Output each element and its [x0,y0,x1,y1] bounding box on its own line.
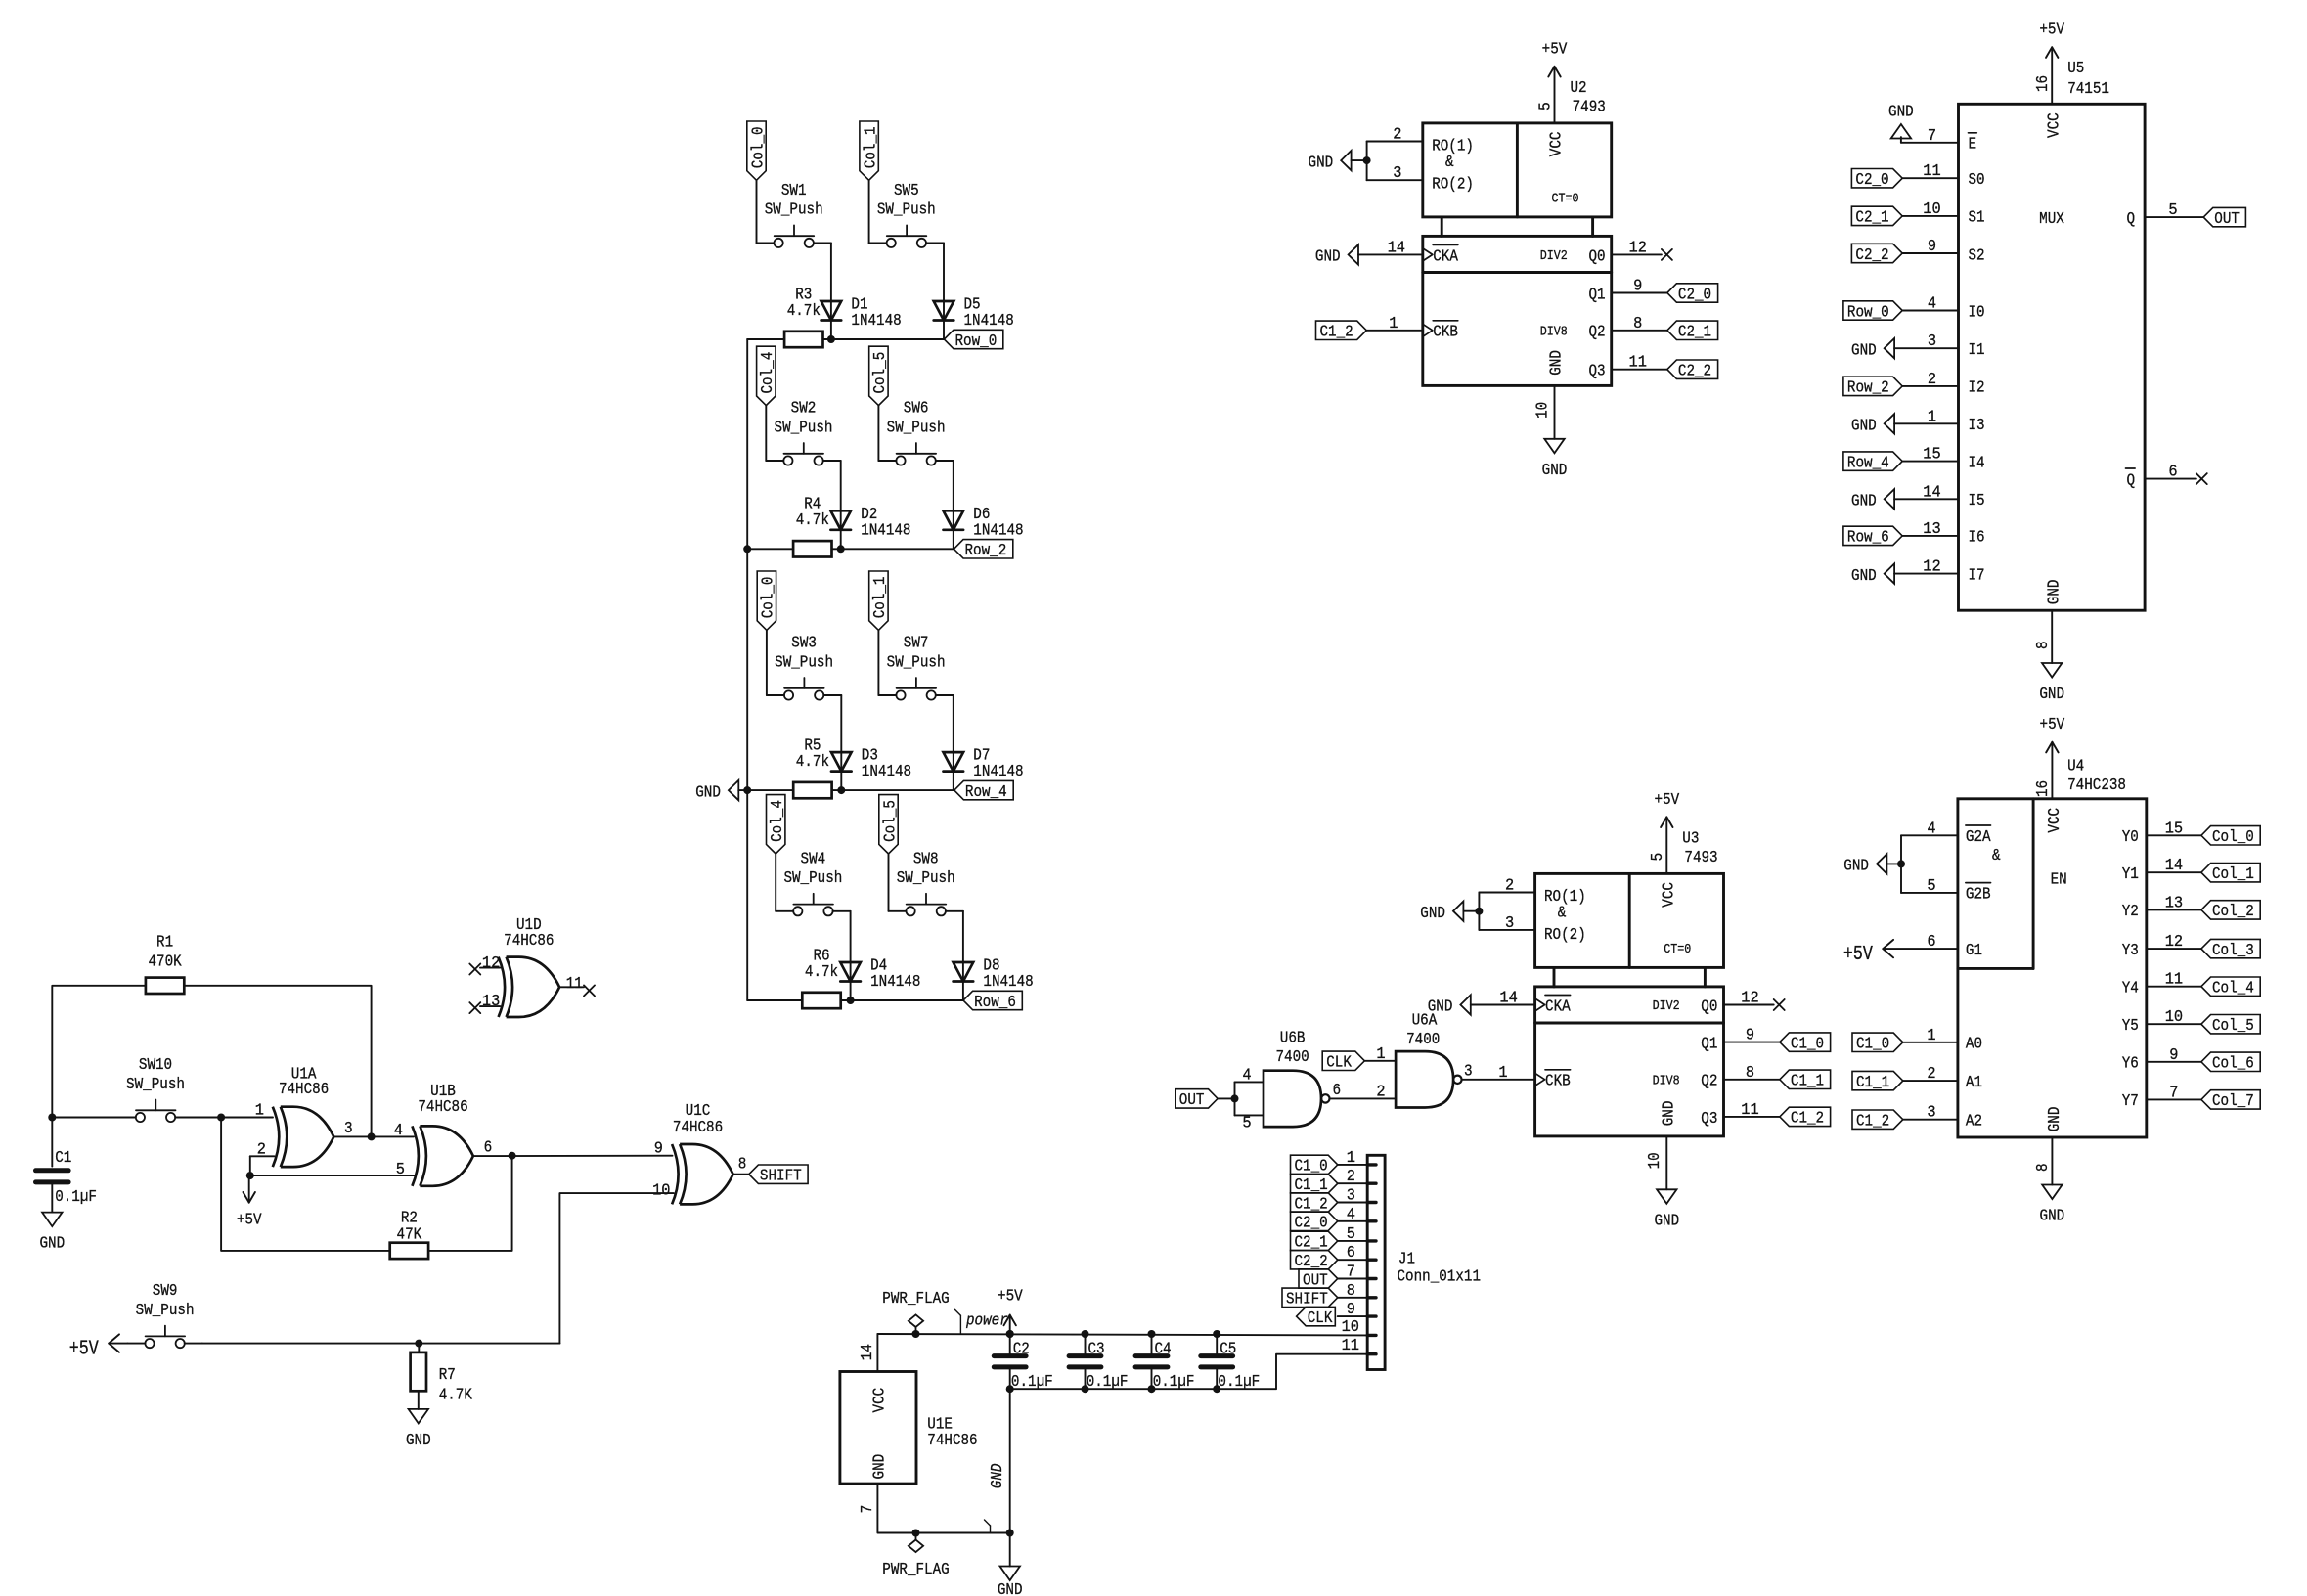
ground GND at U5 pin 12 [1851,558,1959,586]
wire R1 loop [52,986,146,1118]
svg-text:GND: GND [695,783,721,802]
svg-text:Col_7: Col_7 [2212,1092,2254,1111]
svg-text:10: 10 [652,1182,670,1201]
J1 pin 11 stub [1342,1337,1376,1355]
svg-text:6: 6 [1347,1244,1355,1263]
svg-text:8: 8 [1746,1064,1754,1083]
global label Col_4 (Row_6 row left) [767,795,788,854]
global label C2_1 at J1 pin 5 [1291,1225,1368,1253]
svg-text:Row_0: Row_0 [955,332,998,351]
global label C1_2 to U2 CKB pin 1 [1316,315,1423,342]
svg-text:1N4148: 1N4148 [861,521,910,540]
global label C2_0 to U5 pin 11 [1851,162,1958,190]
svg-text:13: 13 [1923,520,1940,539]
global label C1_2 to U4 A3 pin 3 [1852,1104,1958,1131]
svg-text:13: 13 [482,993,500,1011]
switch SW8 SW_Push [889,850,963,915]
svg-text:2: 2 [1927,1065,1935,1084]
global label C1_1 at U3 Q2 [1780,1070,1831,1091]
svg-text:Col_5: Col_5 [2212,1017,2254,1036]
svg-text:Y4: Y4 [2122,980,2139,998]
resistor R7 4.7K (vertical) [411,1344,473,1409]
svg-text:4.7K: 4.7K [439,1387,473,1405]
svg-text:Q3: Q3 [1701,1110,1717,1129]
svg-text:SW_Push: SW_Push [765,201,823,220]
wire RO join [1366,142,1368,181]
junction top [1082,1330,1089,1338]
svg-text:12: 12 [1923,558,1940,577]
svg-text:+5V: +5V [2039,22,2064,40]
svg-text:4.7k: 4.7k [787,302,821,321]
wire R2 right up to pin6 net [428,1156,511,1251]
svg-text:1: 1 [1347,1149,1355,1168]
svg-text:Col_4: Col_4 [759,352,777,394]
svg-text:I3: I3 [1969,417,1985,435]
svg-text:4: 4 [1928,295,1936,314]
wire [841,999,963,1001]
XOR gate U1A 74HC86 [255,1066,353,1168]
svg-text:+5V: +5V [1654,791,1679,810]
svg-text:U5: U5 [2067,60,2084,78]
junction OUT [1231,1094,1239,1102]
svg-text:CKA: CKA [1433,247,1458,266]
svg-text:Row_6: Row_6 [974,994,1016,1012]
svg-text:Q1: Q1 [1589,286,1606,304]
svg-text:Q2: Q2 [1701,1073,1717,1091]
wire vertical bus left of switch matrix [746,339,748,1000]
J1 pin 7 stub [1367,1277,1376,1280]
svg-text:0.1µF: 0.1µF [1153,1373,1195,1392]
global label Col_3 at U4 Y [2201,939,2260,960]
ground GND at U3 RO [1420,902,1479,923]
wire U1E VCC pin 14 [859,1334,877,1372]
svg-text:9: 9 [1347,1301,1355,1319]
capacitor C4 0.1uF [1135,1334,1194,1392]
global label Row_0 to U5 pin 4 [1843,295,1959,323]
svg-text:C2_2: C2_2 [1678,363,1711,381]
svg-text:VCC: VCC [1661,882,1679,908]
svg-text:74HC238: 74HC238 [2067,776,2126,795]
U1D pin11 no-connect [559,985,595,996]
svg-text:SW10: SW10 [139,1056,172,1075]
power +5V at U3 pin 5 [1649,791,1680,874]
svg-text:15: 15 [1923,446,1940,465]
wire SW10 right to U1A pin1 [193,1117,273,1119]
svg-text:47K: 47K [397,1226,422,1245]
svg-text:E: E [1969,136,1977,155]
ground GND below C1 [39,1213,65,1254]
wire U3 Q3 pin 11 [1724,1101,1780,1120]
svg-text:12: 12 [1741,990,1758,1008]
svg-text:Col_6: Col_6 [2212,1055,2254,1074]
wire U6B output pin 6 to U6A pin 2 [1330,1082,1396,1101]
power +5V at U2 pin 5 [1536,40,1568,123]
svg-text:7: 7 [1347,1263,1355,1282]
wire SW9 to R7 junction and U1C pin10 riser [202,1343,560,1345]
resistor R2 47K [390,1210,428,1260]
svg-text:SW8: SW8 [913,850,939,868]
ground GND at U3 pin 14 CKA [1428,990,1535,1017]
diode D5 1N4148 [934,296,1014,332]
svg-text:C2_0: C2_0 [1295,1215,1328,1233]
switch SW1 SW_Push [757,182,831,247]
wire [747,338,784,340]
svg-text:3: 3 [1464,1062,1473,1081]
svg-text:2: 2 [1928,371,1936,389]
switch SW9 SW_Push [127,1282,201,1348]
svg-text:C1_0: C1_0 [1791,1035,1824,1053]
svg-text:A2: A2 [1966,1113,1982,1131]
wire U1B out pin6 [473,1155,673,1157]
switch SW6 SW_Push [878,400,953,465]
svg-text:VCC: VCC [2046,112,2064,138]
svg-text:Conn_01x11: Conn_01x11 [1398,1267,1482,1286]
svg-text:DIV8: DIV8 [1653,1074,1680,1088]
svg-text:U6B: U6B [1280,1030,1306,1048]
wire U3 pin 3 [1479,914,1534,933]
wire [850,911,852,1000]
svg-text:RO(2): RO(2) [1544,926,1586,945]
global label Col_5 at U4 Y [2201,1015,2260,1037]
svg-text:1: 1 [255,1102,264,1121]
svg-text:9: 9 [654,1140,663,1159]
junction bottom [1082,1385,1089,1393]
local label power [954,1309,1007,1334]
wire [775,854,776,911]
svg-text:DIV2: DIV2 [1540,249,1568,264]
ground GND at U3 pin 10 [1646,1136,1679,1230]
svg-text:3: 3 [1393,164,1401,183]
wire +5V rail [877,1334,1367,1335]
wire U6A output pin 3 to U3 CKB pin 1 [1462,1062,1535,1082]
svg-text:GND: GND [1851,341,1877,360]
svg-text:Row_6: Row_6 [1847,529,1889,548]
svg-text:GND: GND [1548,350,1567,376]
svg-text:SW9: SW9 [153,1282,178,1301]
svg-text:Row_4: Row_4 [1847,454,1889,472]
wire U4 G2B pin 5 [1901,877,1958,896]
junction top [1213,1330,1220,1338]
wire U1E GND pin 7 [859,1484,1010,1532]
wire [832,789,954,791]
wire U5 Qbar pin 6 no-connect [2145,464,2207,485]
diode D1 1N4148 [821,296,902,332]
diode D2 1N4148 [830,506,910,541]
wire [962,911,964,1000]
junction [1006,1529,1014,1537]
ground GND at Row_4 [695,780,747,802]
svg-text:14: 14 [1499,990,1517,1008]
global label Col_4 (Row_2 row left) [757,346,778,405]
junction [1006,1330,1014,1338]
svg-text:Y5: Y5 [2122,1017,2139,1036]
svg-text:GND: GND [1420,905,1445,923]
junction C1/SW10 [48,1114,56,1122]
svg-text:8: 8 [738,1156,747,1175]
svg-text:SW_Push: SW_Push [887,419,946,437]
svg-text:7: 7 [1928,127,1936,146]
ground GND below R7 [406,1409,431,1450]
svg-text:A1: A1 [1966,1074,1982,1092]
wire U2 Q1 pin 9 [1612,278,1667,296]
wire U4 G2A pin 4 [1901,820,1958,838]
svg-text:Q0: Q0 [1589,247,1606,266]
svg-text:1N4148: 1N4148 [973,763,1023,781]
global label SHIFT at J1 pin 8 [1282,1282,1367,1309]
svg-text:8: 8 [2034,641,2053,649]
wire R2 left to feedback node [221,1118,390,1251]
XOR gate U1B 74HC86 [394,1083,492,1186]
wire U3 Q0 pin 12 no-connect [1724,990,1785,1011]
ground GND at U5 pin 1 [1851,408,1959,435]
svg-text:Y2: Y2 [2122,903,2139,921]
junction bottom [1213,1385,1220,1393]
svg-text:1: 1 [1927,1027,1935,1045]
resistor R3 4.7k [784,286,822,347]
global label C2_2 at J1 pin 6 [1291,1244,1368,1271]
wire U1A pin3 out [333,1135,371,1137]
junction bus/Row_2 [743,545,751,553]
svg-text:4.7k: 4.7k [796,511,829,530]
svg-text:C2_0: C2_0 [1678,286,1711,304]
svg-text:G2B: G2B [1966,886,1991,905]
global label C1_0 to U4 A1 pin 1 [1852,1027,1958,1054]
svg-text:11: 11 [2165,971,2183,990]
wire [888,854,890,911]
IC U3 7493 counter [1535,830,1724,1136]
svg-text:4: 4 [1927,820,1935,838]
svg-text:C3: C3 [1088,1341,1105,1359]
wire [832,548,954,550]
wire U4 Y pin 15 [2147,820,2201,838]
wire OUT to U6B inputs [1218,1066,1264,1132]
svg-text:OUT: OUT [2214,210,2240,229]
svg-text:VCC: VCC [1548,132,1567,157]
wire U4 Y pin 12 [2147,933,2201,952]
wire [747,999,802,1001]
XOR gate U1C 74HC86 [652,1102,746,1205]
svg-text:2: 2 [1505,877,1514,896]
ground GND at U4 pin 8 [2034,1137,2064,1226]
svg-text:RO(2): RO(2) [1432,175,1474,194]
svg-text:8: 8 [1347,1282,1355,1301]
switch SW5 SW_Push [869,182,944,247]
junction pin2 net [246,1172,254,1179]
svg-text:6: 6 [1927,933,1935,952]
svg-text:GND: GND [2040,1208,2065,1226]
svg-text:U4: U4 [2067,758,2084,776]
svg-text:C2_0: C2_0 [1855,171,1888,190]
svg-text:Q: Q [2127,210,2136,229]
switch SW4 SW_Push [776,850,850,915]
svg-text:C1_2: C1_2 [1856,1113,1889,1131]
svg-text:Q1: Q1 [1701,1036,1717,1054]
junction [912,1529,920,1537]
svg-text:74151: 74151 [2067,80,2109,99]
svg-text:SW2: SW2 [791,400,817,419]
svg-text:5: 5 [396,1161,405,1179]
svg-text:C5: C5 [1220,1341,1236,1359]
junction at D2 cathode [837,545,845,553]
svg-text:14: 14 [859,1344,877,1360]
svg-text:GND: GND [406,1432,431,1450]
power +5V to U4 G1 pin 6 [1843,933,1958,966]
junction [912,1330,920,1338]
svg-text:J1: J1 [1398,1251,1415,1269]
svg-text:10: 10 [1646,1152,1664,1169]
svg-text:7493: 7493 [1684,849,1717,867]
svg-text:11: 11 [1629,354,1647,373]
global label C2_1 to U5 pin 10 [1851,200,1958,228]
svg-text:0.1µF: 0.1µF [55,1188,97,1207]
wire U2 Q3 pin 11 [1612,354,1667,373]
svg-text:3: 3 [1928,332,1936,351]
svg-text:13: 13 [2165,894,2183,912]
svg-text:CKA: CKA [1545,997,1571,1016]
svg-text:Y6: Y6 [2122,1055,2139,1074]
svg-text:9: 9 [1746,1027,1754,1045]
wire [747,548,793,550]
svg-text:A0: A0 [1966,1036,1982,1054]
svg-text:1N4148: 1N4148 [964,312,1014,331]
svg-text:Q2: Q2 [1589,324,1606,342]
svg-text:&: & [1558,905,1567,923]
svg-text:C2_2: C2_2 [1855,246,1888,265]
svg-text:&: & [1992,847,2001,865]
wire U4 Y pin 9 [2147,1046,2201,1065]
svg-text:Row_2: Row_2 [1847,379,1889,398]
wire [840,695,842,790]
svg-text:PWR_FLAG: PWR_FLAG [882,1561,949,1579]
power flag PWR_FLAG on GND [882,1533,949,1580]
svg-text:2: 2 [1393,126,1401,145]
svg-text:+5V: +5V [237,1212,262,1230]
diode D4 1N4148 [840,957,920,993]
svg-text:power: power [965,1312,1008,1331]
svg-text:1: 1 [1389,315,1398,333]
svg-text:GND: GND [1654,1212,1679,1230]
switch SW2 SW_Push [766,400,840,465]
wire [877,406,879,461]
NAND gate U6B 7400 [1264,1030,1330,1128]
svg-text:I6: I6 [1969,529,1985,548]
ground GND at U5 pin 14 [1851,483,1959,510]
global label OUT to U6B [1176,1089,1218,1111]
svg-text:5: 5 [1347,1225,1355,1244]
svg-text:+5V: +5V [1843,944,1873,966]
svg-text:4.7k: 4.7k [805,963,838,982]
svg-text:R1: R1 [156,934,173,953]
svg-text:1N4148: 1N4148 [862,763,911,781]
power flag PWR_FLAG on +5V [882,1290,949,1334]
svg-text:C4: C4 [1155,1341,1172,1359]
svg-text:C1_2: C1_2 [1320,324,1353,342]
svg-text:SW_Push: SW_Push [897,869,955,888]
wire pin2 net to U1B pin5 [250,1175,414,1176]
svg-text:GND: GND [1315,248,1341,267]
svg-text:GND: GND [1851,493,1877,511]
svg-text:5: 5 [1649,853,1667,862]
global label C2_2 at U2 Q3 [1667,360,1718,381]
wire GND rail [1010,1354,1368,1390]
resistor R4 4.7k [793,496,831,557]
svg-text:0.1µF: 0.1µF [1087,1373,1129,1392]
svg-text:14: 14 [2165,857,2183,875]
global label Row_6 [963,991,1022,1012]
ground GND at U5 pin 8 [2034,610,2064,704]
svg-text:74HC86: 74HC86 [504,932,554,951]
J1 pin 10 stub [1342,1318,1376,1337]
svg-text:Q: Q [2127,471,2136,490]
global label C1_1 to U4 A2 pin 2 [1852,1065,1958,1092]
svg-text:Row_2: Row_2 [965,542,1007,560]
global label C1_1 at J1 pin 2 [1291,1168,1368,1195]
global label Col_2 at U4 Y [2201,901,2260,922]
global label C2_0 at U2 Q1 [1667,284,1718,305]
diode D6 1N4148 [944,506,1024,541]
svg-text:GND: GND [2039,686,2064,704]
svg-text:11: 11 [1923,162,1940,181]
power +5V left at SW9 [69,1334,128,1360]
wire U1C pin10 from SW9 net [559,1193,673,1344]
svg-text:10: 10 [1533,402,1552,419]
svg-text:SW7: SW7 [904,635,929,653]
svg-text:SW_Push: SW_Push [783,869,842,888]
wire U5 Q pin 5 to OUT [2145,201,2203,220]
svg-text:S1: S1 [1969,209,1985,228]
svg-text:I7: I7 [1969,566,1985,585]
global label Col_6 at U4 Y [2201,1052,2260,1074]
global label C2_0 at J1 pin 4 [1291,1206,1368,1233]
svg-text:Col_1: Col_1 [871,577,890,619]
svg-text:2: 2 [1376,1083,1385,1101]
wire [830,243,832,339]
svg-text:DIV8: DIV8 [1540,325,1568,339]
svg-text:Col_0: Col_0 [2212,828,2254,847]
svg-text:SW_Push: SW_Push [887,653,946,672]
svg-text:Col_1: Col_1 [2212,865,2254,884]
power +5V arrow on rail [998,1288,1023,1335]
global label Row_2 to U5 pin 2 [1843,371,1959,398]
svg-text:7: 7 [859,1505,877,1514]
junction at D1 cathode [827,335,835,343]
wire U1C out pin8 to SHIFT [733,1174,749,1175]
svg-text:U2: U2 [1571,79,1587,98]
svg-text:U6A: U6A [1412,1012,1438,1031]
ground GND at U4 G2A/G2B [1843,854,1901,875]
svg-text:1: 1 [1498,1064,1507,1083]
global label Row_4 to U5 pin 15 [1843,446,1959,473]
svg-text:Col_0: Col_0 [760,577,778,619]
svg-text:CT=0: CT=0 [1552,192,1579,206]
svg-text:S0: S0 [1969,171,1985,190]
ground GND at U2 RO [1309,151,1367,172]
svg-text:Col_5: Col_5 [881,800,900,842]
wire U3 pin 2 [1479,877,1534,896]
svg-text:Y7: Y7 [2122,1092,2139,1111]
wire U2 pin 3 [1367,164,1423,183]
svg-text:G1: G1 [1966,942,1982,960]
svg-text:PWR_FLAG: PWR_FLAG [882,1290,949,1308]
svg-text:Y1: Y1 [2122,865,2139,884]
svg-text:3: 3 [344,1120,353,1138]
capacitor C2 0.1uF [994,1334,1052,1392]
global label C2_2 to U5 pin 9 [1851,238,1958,265]
svg-text:1N4148: 1N4148 [851,312,901,331]
wire [953,695,954,790]
capacitor C3 0.1uF [1069,1334,1128,1392]
wire U2 Q2 pin 8 [1612,315,1667,333]
